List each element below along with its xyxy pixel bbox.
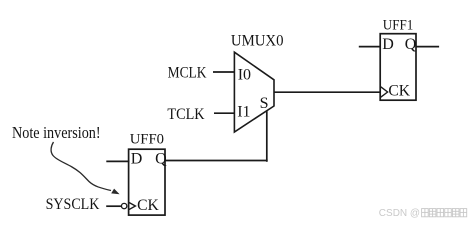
wire UFF1 Q output bbox=[416, 46, 440, 48]
svg-text:Q: Q bbox=[405, 36, 417, 53]
wire UFF0 D input stub bbox=[106, 160, 129, 162]
svg-text:MCLK: MCLK bbox=[168, 64, 207, 81]
clock wedge of UFF1 bbox=[380, 86, 387, 97]
watermark CJK glyph blocks bbox=[422, 209, 467, 217]
clock wedge of UFF0 bbox=[129, 202, 136, 210]
svg-text:D: D bbox=[382, 36, 394, 53]
svg-text:S: S bbox=[260, 95, 269, 112]
flip-flop UFF1 body bbox=[380, 34, 416, 101]
wire MCLK to mux I0 bbox=[213, 71, 235, 73]
svg-text:I1: I1 bbox=[237, 104, 250, 121]
svg-text:CK: CK bbox=[137, 197, 159, 214]
svg-text:D: D bbox=[131, 151, 143, 168]
svg-text:CK: CK bbox=[388, 83, 410, 100]
svg-text:UMUX0: UMUX0 bbox=[231, 32, 284, 49]
wire UFF0 Q to mux S (vertical riser) bbox=[266, 111, 268, 162]
flip-flop UFF0 body bbox=[129, 149, 165, 215]
svg-text:SYSCLK: SYSCLK bbox=[46, 196, 100, 213]
wire UFF1 D input bbox=[359, 46, 381, 48]
wire UFF0 Q to mux S (horizontal segment) bbox=[165, 160, 268, 162]
inversion bubble on UFF0 CK bbox=[121, 203, 126, 208]
wire SYSCLK to inversion bubble bbox=[106, 205, 121, 207]
svg-text:I0: I0 bbox=[238, 67, 251, 84]
svg-text:TCLK: TCLK bbox=[167, 106, 205, 123]
annotation squiggly arrow shaft bbox=[51, 142, 111, 191]
svg-text:CSDN @: CSDN @ bbox=[379, 208, 420, 219]
svg-text:Q: Q bbox=[155, 151, 167, 168]
mux UMUX0 body bbox=[234, 52, 274, 132]
wire mux output to UFF1 CK bbox=[274, 91, 381, 93]
annotation arrowhead bbox=[111, 189, 119, 195]
svg-text:UFF1: UFF1 bbox=[383, 18, 414, 34]
svg-text:Note inversion!: Note inversion! bbox=[12, 123, 101, 142]
wire TCLK to mux I1 bbox=[214, 112, 235, 114]
svg-text:UFF0: UFF0 bbox=[130, 131, 164, 147]
